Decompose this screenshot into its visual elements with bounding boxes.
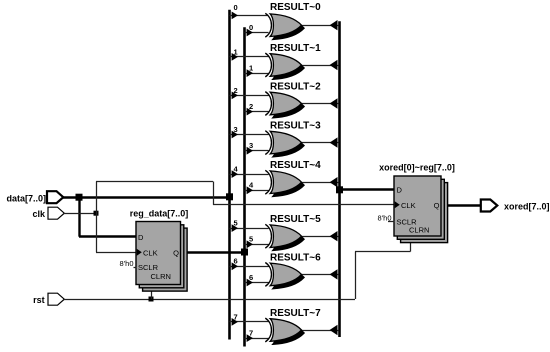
wire bus2 bit 3 branch [245, 147, 269, 155]
wire bus2 bit 2 branch [245, 108, 269, 116]
register reg_data[7..0] [136, 222, 187, 292]
svg-text:4: 4 [249, 181, 254, 190]
svg-text:7: 7 [234, 312, 238, 321]
wire reg_data Q to bus2 [181, 251, 245, 253]
wire clk down to xored clk level [213, 182, 215, 205]
junction result bus to xored D [336, 186, 343, 193]
svg-text:6: 6 [249, 273, 253, 282]
wire RESULT~6 output [302, 269, 339, 279]
bus RESULT vertical [338, 21, 341, 337]
svg-text:RESULT~7: RESULT~7 [270, 308, 321, 319]
svg-text:RESULT~5: RESULT~5 [270, 214, 321, 225]
wire rst horizontal to xored [355, 251, 411, 253]
svg-text:8'h0: 8'h0 [120, 259, 134, 268]
wire rst up to reg_data CLRN [151, 284, 153, 299]
output pin xored[7..0] [481, 200, 550, 212]
input pin clk [32, 207, 64, 219]
wire RESULT~0 output [302, 20, 339, 30]
wire bus1 bit 0 branch [230, 12, 269, 20]
svg-text:5: 5 [234, 219, 238, 228]
xor gate RESULT~7 [265, 318, 304, 344]
svg-text:CLRN: CLRN [151, 272, 171, 281]
svg-text:D: D [138, 233, 144, 242]
wire data pin to bus1 [63, 196, 230, 198]
svg-text:RESULT~2: RESULT~2 [270, 82, 321, 93]
svg-text:xored[7..0]: xored[7..0] [504, 202, 550, 212]
svg-text:0: 0 [234, 3, 238, 12]
svg-text:4: 4 [234, 165, 239, 174]
wire bus1 bit 5 branch [230, 224, 269, 232]
wire bus2 bit 4 branch [245, 186, 269, 194]
svg-text:SCLR: SCLR [138, 263, 159, 272]
svg-text:RESULT~1: RESULT~1 [270, 43, 321, 54]
svg-text:0: 0 [249, 23, 253, 32]
svg-text:CLRN: CLRN [409, 226, 429, 235]
bus reg_data Q vertical [243, 27, 246, 346]
wire bus1 bit 1 branch [230, 53, 269, 61]
wire bus1 bit 7 branch [230, 318, 269, 326]
wire RESULT~2 output [302, 98, 339, 108]
svg-text:RESULT~4: RESULT~4 [270, 160, 321, 171]
svg-text:3: 3 [249, 141, 253, 150]
svg-text:Q: Q [173, 249, 179, 258]
junction data bus1 [226, 193, 233, 200]
wire RESULT~3 output [302, 137, 339, 147]
svg-text:3: 3 [234, 125, 238, 134]
wire rst pin horizontal [64, 299, 355, 301]
input pin rst [33, 293, 64, 305]
svg-text:RESULT~6: RESULT~6 [270, 252, 321, 263]
xor gate RESULT~2 [265, 92, 304, 118]
junction rst reg_data branch [149, 297, 154, 302]
wire bus1 bit 6 branch [230, 262, 269, 270]
svg-text:RESULT~0: RESULT~0 [270, 2, 321, 13]
svg-text:1: 1 [234, 47, 238, 56]
junction data split [76, 194, 83, 201]
wire to reg_data D [79, 235, 137, 237]
svg-text:D: D [397, 186, 403, 195]
svg-text:6: 6 [234, 257, 238, 266]
svg-text:RESULT~3: RESULT~3 [270, 121, 321, 132]
wire bus1 bit 2 branch [230, 92, 269, 100]
junction clk [94, 211, 99, 216]
svg-text:2: 2 [249, 102, 253, 111]
wire bus2 bit 1 branch [245, 69, 269, 77]
value label 8h0 (xored SCLR) [378, 214, 395, 223]
value label 8h0 (reg_data SCLR) [120, 259, 137, 268]
svg-text:clk: clk [32, 209, 46, 219]
wire clk to xored CLK [213, 204, 395, 206]
xor gate RESULT~3 [265, 131, 304, 157]
svg-text:data[7..0]: data[7..0] [6, 194, 46, 204]
wire xored Q to output pin [441, 204, 481, 206]
wire bus1 bit 4 branch [230, 170, 269, 178]
wire clk vertical [96, 182, 98, 253]
wire bus2 bit 6 branch [245, 279, 269, 287]
wire result bus to xored D [340, 188, 395, 190]
wire clk to reg_data CLK [96, 252, 137, 254]
svg-text:7: 7 [249, 329, 253, 338]
wire RESULT~5 output [302, 231, 339, 241]
wire bus2 bit 0 branch [245, 29, 269, 37]
bus data[7..0] vertical [228, 10, 231, 340]
wire rst vertical right [355, 252, 357, 300]
junction Q bus2 [241, 249, 248, 256]
wire RESULT~7 output [302, 325, 339, 335]
svg-text:CLK: CLK [143, 249, 158, 258]
register xored[0]~reg[7..0] [394, 176, 448, 243]
wire bus1 bit 3 branch [230, 131, 269, 139]
xor gate RESULT~0 [265, 13, 304, 39]
svg-text:CLK: CLK [401, 201, 416, 210]
wire clk pin to junction [64, 213, 96, 215]
xor gate RESULT~5 [265, 224, 304, 250]
svg-text:rst: rst [33, 295, 45, 305]
xor gate RESULT~1 [265, 53, 304, 79]
svg-text:xored[0]~reg[7..0]: xored[0]~reg[7..0] [379, 163, 455, 173]
wire RESULT~4 output [302, 177, 339, 187]
wire data vertical to reg_data D [78, 197, 80, 237]
svg-text:1: 1 [249, 64, 253, 73]
wire bus2 bit 5 branch [245, 240, 269, 248]
xor gate RESULT~6 [265, 263, 304, 289]
input pin data[7..0] [6, 191, 63, 203]
xor gate RESULT~4 [265, 170, 304, 196]
wire rst up to xored CLRN [410, 239, 412, 252]
svg-text:5: 5 [249, 235, 253, 244]
wire clk top horizontal [96, 181, 213, 183]
wire RESULT~1 output [302, 60, 339, 70]
svg-text:reg_data[7..0]: reg_data[7..0] [130, 209, 189, 219]
wire bus2 bit 7 branch [245, 334, 269, 342]
svg-text:Q: Q [434, 201, 440, 210]
svg-text:2: 2 [234, 86, 238, 95]
